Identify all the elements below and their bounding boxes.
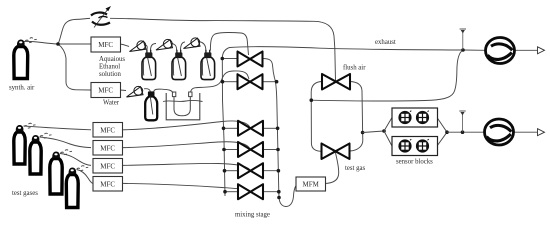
wire: V3 to bottle3 — [199, 42, 206, 51]
needle valve V1 — [130, 41, 147, 52]
wire: vent manifold vertical — [222, 48, 229, 197]
svg-text:test gases: test gases — [12, 190, 38, 197]
wire: test cylinder1 to MFC3 — [24, 126, 92, 130]
bubbler bottle B2 — [172, 50, 186, 80]
sensor block 2 — [392, 137, 438, 156]
mixing valve C — [238, 121, 263, 136]
mixing valve D — [238, 142, 263, 157]
wire: top line from hand valve to flush drop — [110, 18, 335, 48]
vent symbol 1 — [460, 29, 466, 50]
svg-text:Aquaious: Aquaious — [99, 56, 125, 63]
water bottle B4 — [145, 91, 157, 120]
wire: MFC2 to needle valve V4 — [120, 89, 126, 92]
svg-text:Water: Water — [103, 100, 120, 107]
mixing valve A — [238, 52, 263, 67]
wire: valve A out to collector — [263, 59, 275, 79]
junction dots on manifold — [221, 57, 227, 194]
test gas valve — [322, 144, 350, 160]
junction dot sensor split — [382, 129, 386, 133]
wire: manifold stub valve B — [223, 81, 238, 83]
wire: flush air drop to flush valve — [334, 48, 337, 81]
wire: bottle1 to V2 — [151, 44, 157, 51]
wire: MFM to test gas valve — [325, 153, 339, 184]
MFC6 box — [93, 177, 123, 192]
wire: synth air to junction — [24, 41, 58, 44]
MFC4 box — [93, 141, 123, 156]
svg-text:test gas: test gas — [345, 165, 366, 172]
wire: collector vertical — [275, 78, 297, 207]
mixing valve F — [238, 184, 263, 199]
wire: sensor block1 to merge — [437, 118, 447, 133]
wire: MFC1 to needle valve V1 — [120, 44, 129, 47]
wire: test cylinder2 to MFC4 — [40, 137, 92, 148]
svg-text:exhaust: exhaust — [375, 39, 396, 46]
wire: sensor block2 to merge — [437, 132, 447, 146]
wire: manifold stub valve A — [222, 58, 237, 60]
wire: manifold stub valve C — [224, 127, 239, 129]
pump P1 outlet arrow — [514, 49, 538, 51]
vent symbol 2 — [459, 111, 465, 132]
needle valve V2 — [156, 39, 173, 50]
wire: manifold stub valve D — [224, 149, 238, 151]
needle valve V3 — [184, 38, 201, 49]
wire: bottle4 to bath coil — [154, 89, 173, 93]
wire: MFC3 to mixing valve C — [122, 121, 250, 130]
wire: junction up to top line — [58, 19, 76, 44]
junction dots on collector — [275, 80, 281, 199]
MFC1 box — [91, 37, 121, 52]
wire: junction down to MFC2 — [58, 44, 91, 90]
cylinder: synth air — [14, 38, 37, 79]
svg-text:Ethanol: Ethanol — [99, 64, 120, 71]
wire: manifold stub valve F — [225, 191, 238, 193]
cylinder: test gas 3 — [50, 150, 72, 194]
svg-text:flush air: flush air — [343, 65, 366, 72]
MFC2 box — [91, 83, 121, 98]
wire: test cylinder3 to MFC5 — [60, 154, 91, 166]
water bath — [163, 92, 203, 120]
wire: junction to MFC1 — [58, 43, 91, 45]
svg-text:mixing stage: mixing stage — [235, 212, 270, 219]
wire: loop to sensor split — [363, 131, 384, 133]
wire: exhaust line — [230, 47, 486, 51]
MFC3 box — [93, 123, 123, 138]
wire: test cylinder4 to MFC6 — [77, 170, 94, 184]
wire: collector stub valve B — [263, 81, 277, 83]
svg-text:MFC: MFC — [98, 41, 113, 49]
MFC5 box — [93, 159, 123, 174]
wire: collector stub valve C — [262, 127, 278, 129]
pump P1 — [486, 38, 515, 64]
junction dot sensor merge — [445, 130, 449, 134]
svg-text:MFM: MFM — [303, 181, 320, 189]
wire: manifold stub valve E — [225, 170, 239, 172]
wire: MFC4 to mixing valve D — [122, 142, 250, 148]
wire: split to sensor block2 — [384, 131, 392, 146]
svg-text:MFC: MFC — [100, 126, 115, 134]
cylinder: test gas 4 — [66, 166, 88, 208]
svg-text:MFC: MFC — [98, 87, 113, 95]
pump P2 outlet arrow — [513, 131, 538, 133]
wire: MFC6 to mixing valve F — [122, 183, 250, 190]
flush air valve — [322, 74, 350, 90]
junction dot synth air — [56, 42, 60, 46]
wire: V2 to bottle2 — [172, 44, 177, 51]
mixing valve B — [238, 74, 263, 89]
svg-text:MFC: MFC — [100, 180, 115, 188]
wire: MFC5 to mixing valve E — [122, 163, 250, 169]
wire: V4 to bottle4 — [144, 89, 150, 92]
junction dot pump2 vent — [461, 130, 465, 134]
wire: bottle2 to V3 — [181, 42, 186, 51]
bubbler bottle B3 — [201, 50, 215, 80]
sensor block 1 — [392, 108, 438, 127]
junction dot loop left — [310, 98, 314, 102]
pump P2 — [485, 119, 514, 145]
svg-text:MFC: MFC — [100, 144, 115, 152]
wire: collector stub valve D — [262, 149, 278, 151]
svg-text:MFC: MFC — [100, 162, 115, 170]
wire: split to sensor block1 — [384, 118, 392, 132]
junction dot exhaust — [461, 48, 465, 52]
cylinder: test gas 1 — [14, 123, 36, 164]
cylinder: test gas 2 — [30, 133, 52, 174]
svg-text:sensor blocks: sensor blocks — [396, 159, 433, 166]
needle valve V4 — [127, 86, 144, 97]
wire: excess line from loop to exhaust riser — [312, 50, 464, 101]
hand valve on synth air top line — [91, 6, 111, 28]
bubbler bottle B1 — [142, 50, 156, 80]
junction dot loop right — [361, 131, 365, 135]
mixing valve E — [238, 163, 263, 178]
wire: selector loop — [311, 82, 363, 152]
wire: V1 to bottle1 — [146, 45, 147, 51]
wire: merge to pump2 — [447, 131, 485, 133]
wire: bottle3 up and right to mixing valve A — [210, 33, 248, 55]
svg-text:solution: solution — [99, 71, 122, 78]
MFM box — [296, 177, 326, 191]
wire: top line left of hand valve — [76, 18, 90, 19]
svg-text:synth. air: synth. air — [9, 85, 35, 92]
wire: collector stub valve F — [262, 191, 279, 193]
wire: bath coil out to mixing valve B — [191, 71, 249, 92]
wire: collector stub valve E — [262, 170, 278, 172]
